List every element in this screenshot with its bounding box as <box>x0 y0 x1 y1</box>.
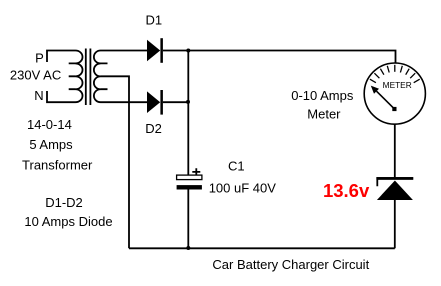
svg-text:D1: D1 <box>145 12 162 27</box>
svg-text:13.6v: 13.6v <box>323 180 370 201</box>
wire secondary bottom to D2 <box>101 101 148 103</box>
wire bottom rail <box>129 247 395 249</box>
meter M1 body circle <box>364 63 425 124</box>
svg-text:D2: D2 <box>145 121 162 136</box>
svg-text:230V AC: 230V AC <box>10 68 61 83</box>
wire meter bottom to zener <box>394 124 396 177</box>
svg-text:14-0-14: 14-0-14 <box>27 117 72 132</box>
node junction dot at D1 output <box>186 49 190 53</box>
meter M1 needle arrowhead <box>371 86 379 94</box>
svg-text:Car Battery Charger Circuit: Car Battery Charger Circuit <box>212 257 369 272</box>
zener diode ZD1 triangle <box>377 181 413 201</box>
wire D2 cathode to bus <box>163 101 188 103</box>
svg-text:C1: C1 <box>228 159 245 174</box>
transformer T1 primary cusp ticks <box>69 63 76 89</box>
wire secondary top to D1 <box>101 50 148 52</box>
diode D2 <box>147 90 163 115</box>
svg-text:METER: METER <box>383 80 412 90</box>
zener diode ZD1 cathode bar <box>376 175 413 186</box>
node junction dot capacitor to bottom rail <box>186 246 190 250</box>
wire center tap to bottom rail <box>101 76 130 248</box>
capacitor C1 plus sign <box>192 168 200 175</box>
transformer T1 secondary cusp ticks <box>101 63 108 89</box>
node junction dot at D2 output <box>186 100 190 104</box>
svg-text:P: P <box>35 51 44 66</box>
svg-text:100 uF 40V: 100 uF 40V <box>209 180 277 195</box>
transformer T1 core <box>86 49 91 106</box>
capacitor C1 bottom plate <box>177 185 202 189</box>
svg-text:10 Amps Diode: 10 Amps Diode <box>24 214 112 229</box>
meter M1 needle pivot <box>392 107 396 111</box>
wire capacitor bottom to bottom rail <box>187 190 189 249</box>
svg-text:Transformer: Transformer <box>22 158 93 173</box>
svg-text:N: N <box>34 88 43 103</box>
meter M1 needle <box>377 91 395 109</box>
wire zener to bottom rail <box>394 200 396 248</box>
meter M1 scale ticks <box>370 65 420 83</box>
transformer T1 secondary winding <box>94 51 101 103</box>
svg-text:Meter: Meter <box>307 107 341 122</box>
wire vertical bus from D1 junction down to capacitor <box>187 51 189 176</box>
svg-text:0-10 Amps: 0-10 Amps <box>291 88 354 103</box>
diode D1 <box>147 38 163 63</box>
svg-text:D1-D2: D1-D2 <box>45 195 83 210</box>
capacitor C1 top plate <box>177 175 202 180</box>
transformer T1 primary winding <box>47 51 83 103</box>
svg-text:5 Amps: 5 Amps <box>29 137 73 152</box>
wire D1 cathode to top-right corner and down to meter <box>163 51 396 64</box>
